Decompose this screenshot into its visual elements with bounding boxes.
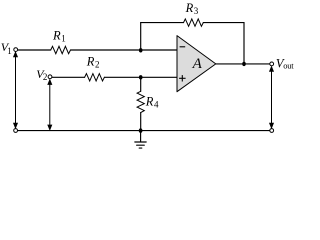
- resistor R1: [51, 46, 71, 53]
- resistor R3: [184, 19, 204, 26]
- voltage arrow V1: [14, 52, 18, 128]
- wire top rail left: [141, 22, 184, 24]
- svg-text:R: R: [52, 28, 61, 42]
- wire R1 to op-amp inverting input: [71, 49, 178, 51]
- label R2: [86, 55, 100, 70]
- node at R2/R4 junction: [139, 75, 143, 79]
- wire op-amp output to Vout: [216, 63, 270, 65]
- voltage arrow Vout: [270, 67, 274, 128]
- svg-text:2: 2: [95, 60, 100, 70]
- terminal Vout: [270, 62, 274, 66]
- ground: [135, 131, 146, 149]
- svg-text:R: R: [86, 55, 95, 69]
- svg-text:R: R: [185, 1, 194, 15]
- wire V1 to R1: [18, 49, 51, 51]
- svg-text:3: 3: [194, 6, 199, 16]
- op-amp U1: [177, 36, 216, 92]
- op-amp minus sign: [180, 46, 186, 48]
- label V2: [36, 67, 47, 82]
- node at output/R3 junction: [242, 62, 246, 66]
- terminal V1: [14, 48, 18, 52]
- terminal bottom right: [270, 129, 274, 133]
- node at R1/R3 junction: [139, 48, 143, 52]
- svg-text:out: out: [283, 61, 294, 71]
- wire top rail right: [203, 23, 244, 64]
- wire node to top rail: [140, 23, 142, 50]
- terminal V2: [48, 75, 52, 79]
- svg-text:R: R: [145, 94, 154, 108]
- wire R2 to op-amp non-inverting input: [104, 76, 177, 78]
- svg-text:1: 1: [7, 46, 12, 56]
- label R4: [145, 94, 159, 109]
- resistor R2: [85, 74, 105, 81]
- svg-text:2: 2: [43, 72, 48, 82]
- terminal bottom left: [14, 129, 18, 133]
- wire R4 to ground node: [140, 113, 142, 131]
- wire bottom rail: [18, 130, 270, 132]
- label R1: [52, 28, 66, 43]
- label V1: [1, 40, 12, 56]
- node at ground junction: [139, 128, 143, 133]
- resistor R4: [137, 91, 144, 112]
- label R3: [185, 1, 199, 16]
- wire node to R4: [140, 77, 142, 91]
- voltage arrow V2: [48, 80, 52, 130]
- svg-text:4: 4: [154, 99, 159, 109]
- svg-text:1: 1: [61, 33, 65, 43]
- wire V2 to R2: [52, 76, 85, 78]
- op-amp plus sign: [179, 75, 186, 81]
- svg-text:A: A: [192, 56, 203, 72]
- label Vout: [276, 57, 294, 71]
